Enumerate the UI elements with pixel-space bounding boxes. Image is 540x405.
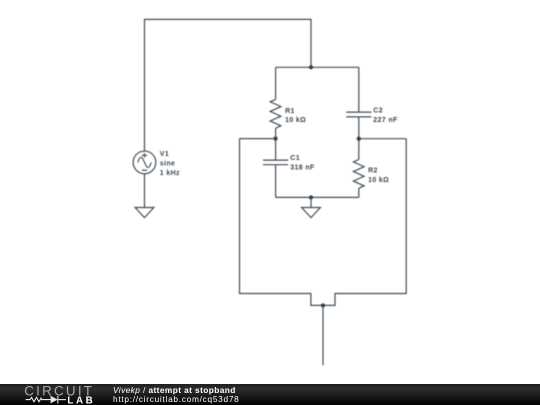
svg-text:R2: R2	[368, 167, 378, 174]
svg-text:C2: C2	[373, 108, 383, 115]
svg-text:1 kHz: 1 kHz	[160, 170, 180, 177]
svg-text:R1: R1	[285, 108, 295, 115]
svg-text:V1: V1	[160, 151, 169, 158]
svg-text:10 kΩ: 10 kΩ	[368, 177, 389, 184]
svg-text:227 nF: 227 nF	[373, 117, 398, 124]
svg-text:318 nF: 318 nF	[290, 164, 315, 171]
svg-text:10 kΩ: 10 kΩ	[285, 117, 306, 124]
svg-text:C1: C1	[290, 155, 300, 162]
svg-text:sine: sine	[160, 161, 175, 168]
svg-text:LAB: LAB	[67, 395, 95, 405]
